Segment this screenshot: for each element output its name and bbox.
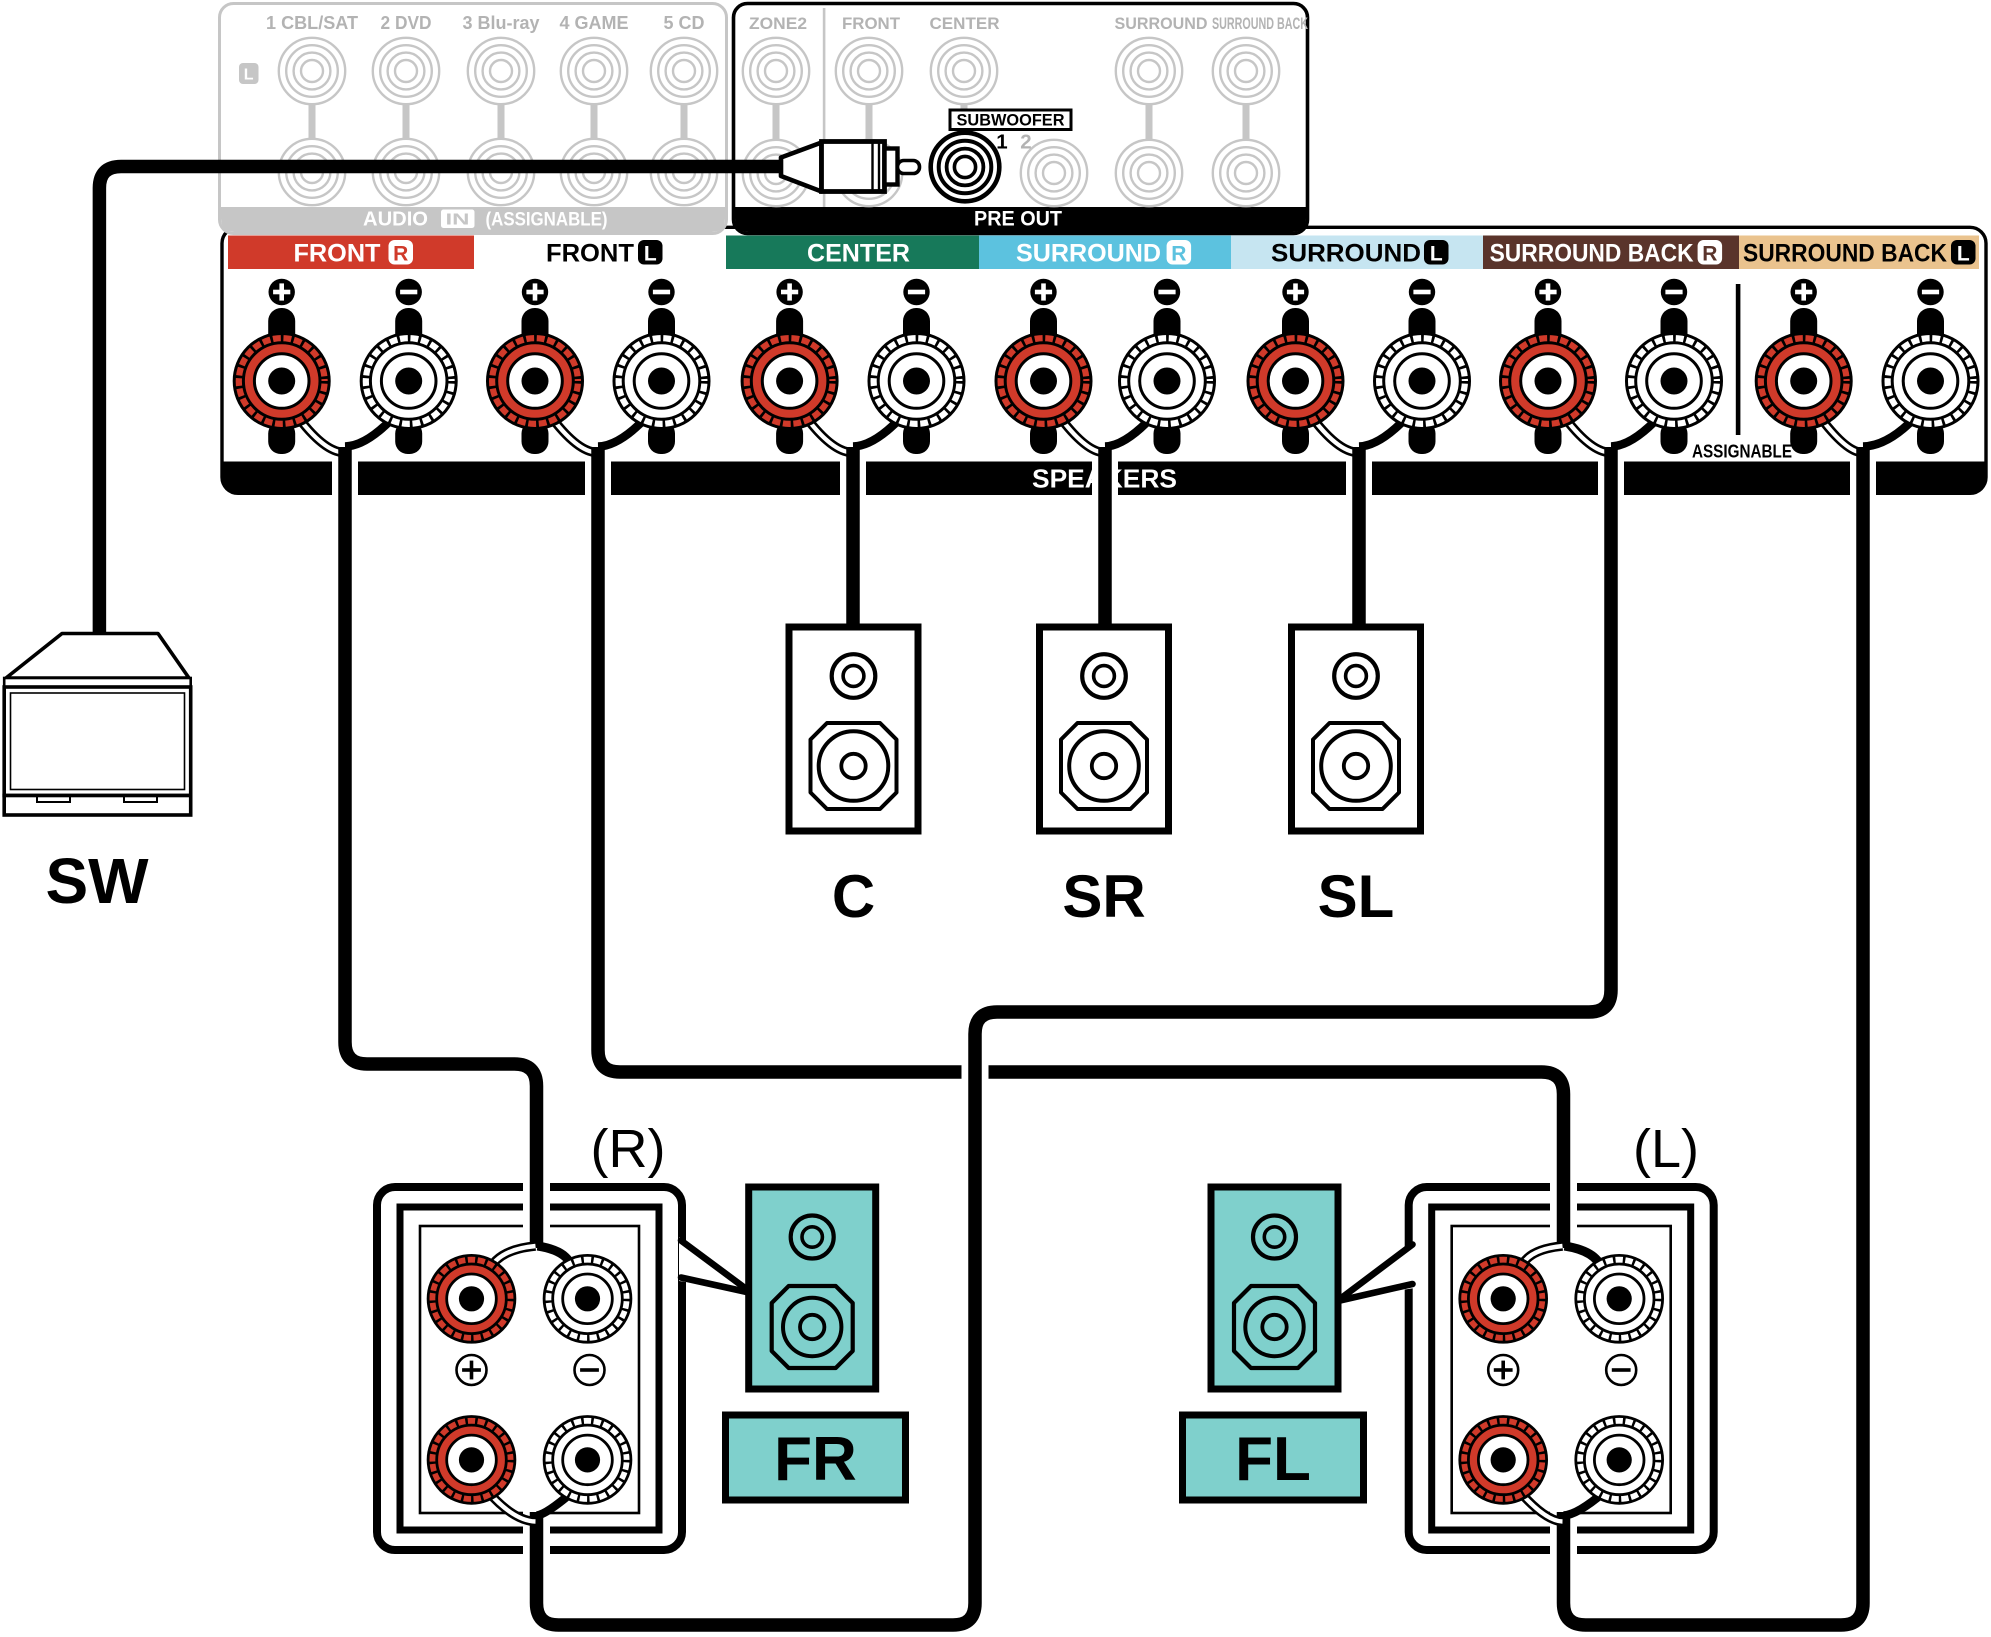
svg-text:CENTER: CENTER (807, 240, 910, 268)
wire strands SURROUND BACK R to speaker cable (1562, 414, 1660, 453)
svg-text:1 CBL/SAT: 1 CBL/SAT (266, 13, 358, 33)
pre-out jack SURROUND (bottom row) (1116, 140, 1182, 206)
wire strands FRONT L to speaker cable (549, 414, 648, 453)
terminal pair SURROUND BACK R: stubs (1535, 308, 1688, 454)
terminal pair SURROUND L: stubs (1282, 308, 1436, 454)
pre-out jack SURROUND (top row) (1116, 38, 1182, 104)
svg-text:IN: IN (446, 212, 470, 229)
speaker panel (R) outer frame (377, 1187, 682, 1550)
frame gaps for wires (R) (523, 1181, 550, 1233)
jack SUBWOOFER 1 (pre out, highlighted) (931, 133, 1000, 202)
pre-out jack SURROUND BACK (top row) (1213, 38, 1279, 104)
binding post FRONT R + (red) (234, 334, 329, 429)
binding post SURROUND BACK R + (red) (1501, 334, 1596, 429)
jack stem 5 CD (681, 104, 688, 139)
svg-text:CENTER: CENTER (930, 14, 1000, 33)
RCA jack 5 CD R (bottom row) (651, 139, 717, 205)
wire strands (L) top pair (1519, 1246, 1603, 1278)
svg-text:SURROUND: SURROUND (1115, 14, 1208, 33)
wire strands (R) bottom pair (487, 1490, 573, 1522)
RCA jack 2 DVD L (top row) (373, 38, 439, 104)
svg-text:SW: SW (45, 845, 149, 917)
svg-text:(ASSIGNABLE): (ASSIGNABLE) (486, 210, 608, 231)
speaker label band SURROUND L (1231, 236, 1483, 270)
RCA plug body (822, 142, 885, 192)
binding post SURROUND R + (red) (996, 334, 1091, 429)
band gap for FRONT R wire (332, 459, 358, 496)
svg-text:R: R (393, 243, 408, 266)
wire strands FRONT R to speaker cable (296, 414, 395, 453)
speaker label band SURROUND BACK R (1483, 236, 1739, 270)
svg-text:5 CD: 5 CD (664, 13, 705, 33)
svg-text:SURROUND: SURROUND (1016, 240, 1161, 268)
SPEAKERS bottom band (222, 462, 1986, 494)
RCA jack 4 GAME L (top row) (561, 38, 627, 104)
jack stem CENTER (short) (961, 104, 968, 110)
polarity symbols (R) (457, 1355, 605, 1385)
callout wedge (L) (1339, 1241, 1415, 1301)
svg-text:3 Blu-ray: 3 Blu-ray (463, 13, 540, 33)
svg-text:SR: SR (1062, 863, 1145, 930)
svg-text:L: L (1957, 243, 1970, 266)
binding post FRONT L - (white) (614, 334, 709, 429)
binding post CENTER - (white) (869, 334, 964, 429)
svg-text:C: C (832, 863, 875, 930)
speaker FR (teal) (749, 1187, 876, 1389)
binding post (L) minus white bottom (1576, 1417, 1663, 1504)
svg-text:SUBWOOFER: SUBWOOFER (957, 111, 1065, 130)
label box FL (1183, 1415, 1364, 1500)
svg-text:4 GAME: 4 GAME (560, 13, 629, 33)
svg-text:2 DVD: 2 DVD (381, 13, 432, 33)
binding post SURROUND L + (red) (1248, 334, 1343, 429)
terminal pair FRONT L: stubs (522, 308, 676, 454)
wire strands SURROUND R to speaker cable (1058, 414, 1154, 453)
subwoofer SW cabinet (4, 634, 191, 816)
L channel badge (239, 63, 259, 84)
RCA plug collar (885, 149, 898, 185)
svg-text:1: 1 (996, 131, 1007, 154)
polarity symbols SURROUND BACK L (1791, 279, 1944, 305)
speaker label band FRONT R (228, 236, 474, 270)
polarity symbols FRONT R (269, 279, 422, 305)
speaker panel (L) middle frame (1432, 1207, 1691, 1530)
speaker C (789, 627, 918, 831)
wire strands SURROUND L to speaker cable (1310, 414, 1409, 453)
svg-text:2: 2 (1020, 131, 1031, 154)
wire strands (R) top pair (488, 1246, 573, 1278)
zone2 divider line (823, 8, 826, 207)
jack stem FRONT (866, 104, 873, 139)
pre-out jack CENTER (top row) (931, 38, 997, 104)
svg-text:FL: FL (1235, 1425, 1311, 1494)
svg-text:R: R (1702, 243, 1717, 266)
jack stem 2 DVD (403, 104, 410, 139)
speaker label band SURROUND R (979, 236, 1231, 270)
svg-text:PRE OUT: PRE OUT (974, 208, 1062, 231)
speaker panel (R) inner frame (420, 1226, 639, 1513)
binding post SURROUND BACK R - (white) (1627, 334, 1722, 429)
speaker label band FRONT L (546, 240, 663, 268)
polarity symbols FRONT L (522, 279, 675, 305)
pre-out jack ZONE2 (top row) (743, 38, 809, 104)
terminal pair CENTER: stubs (776, 308, 930, 454)
wire hop gap (surround back R wire crossing front L wire) (962, 1058, 989, 1086)
speaker panel (R) middle frame (400, 1207, 659, 1530)
panel SPEAKERS terminal strip (222, 227, 1986, 493)
svg-text:FR: FR (774, 1425, 857, 1494)
band gap for CENTER wire (840, 459, 866, 496)
binding post (R) minus white top (544, 1255, 631, 1342)
band gap for SURROUND BACK R wire (1598, 459, 1624, 496)
svg-text:L: L (1430, 243, 1443, 266)
svg-text:(L): (L) (1633, 1119, 1699, 1179)
terminal pair SURROUND BACK L: stubs (1790, 308, 1944, 454)
SUBWOOFER label box (950, 110, 1071, 130)
polarity symbols SURROUND L (1282, 279, 1435, 305)
RCA jack 3 Blu-ray R (bottom row) (468, 139, 534, 205)
wire strands SURROUND BACK L to speaker cable (1818, 414, 1917, 453)
terminal pair FRONT R: stubs (268, 308, 422, 454)
pre-out jack FRONT (bottom row) (836, 140, 902, 206)
binding post (L) plus red bottom (1460, 1417, 1547, 1504)
assignable divider line (1736, 284, 1741, 435)
svg-text:SL: SL (1318, 863, 1395, 930)
svg-text:SURROUND BACK: SURROUND BACK (1212, 14, 1308, 33)
jack stem 3 Blu-ray (498, 104, 505, 139)
panel PRE OUT (734, 4, 1308, 234)
svg-text:SURROUND BACK: SURROUND BACK (1743, 240, 1947, 268)
svg-text:SURROUND BACK: SURROUND BACK (1490, 240, 1694, 268)
RCA plug strain relief (781, 143, 822, 192)
binding post (R) plus red bottom (428, 1417, 515, 1504)
band gap for SURROUND L wire (1346, 459, 1372, 496)
callout wedge (R) (679, 1237, 750, 1293)
terminal pair SURROUND R: stubs (1030, 308, 1181, 454)
speaker SL (1292, 627, 1421, 831)
RCA jack 2 DVD R (bottom row) (373, 139, 439, 205)
band gap for SURROUND R wire (1092, 459, 1118, 496)
svg-text:FRONT: FRONT (546, 240, 634, 268)
PRE OUT bottom band (735, 207, 1306, 232)
speaker label band SURROUND BACK L (1739, 236, 1979, 270)
binding post SURROUND BACK L + (red) (1756, 334, 1851, 429)
polarity symbols CENTER (776, 279, 929, 305)
wire SURROUND BACK L to speaker FL bottom pair (1564, 447, 1864, 1625)
speaker FL (teal) (1211, 1187, 1338, 1389)
RCA jack 1 CBL/SAT R (bottom row) (279, 139, 345, 205)
wire subwoofer RCA cable (SW to PRE OUT SUBWOOFER 1) (99, 167, 783, 635)
jack stem 4 GAME (591, 104, 598, 139)
binding post SURROUND L - (white) (1375, 334, 1470, 429)
speaker panel (L) inner frame (1452, 1226, 1671, 1513)
jack stem SURROUND (1146, 104, 1153, 139)
svg-text:ZONE2: ZONE2 (749, 14, 807, 33)
svg-text:L: L (244, 67, 254, 84)
svg-text:ASSIGNABLE: ASSIGNABLE (1692, 441, 1792, 462)
wire SURROUND BACK R to speaker FR bottom pair (537, 447, 1612, 1625)
frame gaps for wires (L) (1550, 1181, 1577, 1233)
band gap for SURROUND BACK L wire (1850, 459, 1876, 496)
binding post (L) plus red top (1460, 1255, 1547, 1342)
RCA plug body ridges (871, 143, 873, 190)
RCA jack 4 GAME R (bottom row) (561, 139, 627, 205)
RCA jack 3 Blu-ray L (top row) (468, 38, 534, 104)
binding post (R) minus white bottom (544, 1417, 631, 1504)
binding post (L) minus white top (1576, 1255, 1663, 1342)
svg-text:SURROUND: SURROUND (1271, 240, 1421, 268)
RCA jack 1 CBL/SAT L (top row) (279, 38, 345, 104)
pre-out jack SUBWOOFER 2 (bottom row) (1021, 140, 1087, 206)
jack stem SURROUND BACK (1243, 104, 1250, 139)
binding post CENTER + (red) (742, 334, 837, 429)
binding post SURROUND R - (white) (1120, 334, 1215, 429)
svg-text:(R): (R) (591, 1119, 666, 1179)
svg-text:R: R (1171, 243, 1186, 266)
jack stem ZONE2 (773, 104, 780, 139)
pre-out jack FRONT (top row) (836, 38, 902, 104)
speaker label band CENTER (726, 236, 979, 270)
label box FR (726, 1415, 906, 1500)
svg-text:AUDIO: AUDIO (363, 209, 428, 231)
wire strands (L) bottom pair (1518, 1490, 1604, 1522)
pre-out jack SURROUND BACK (bottom row) (1213, 140, 1279, 206)
svg-text:FRONT: FRONT (842, 14, 901, 33)
pre-out jack ZONE2 (bottom row) (743, 140, 809, 206)
wire FRONT R to speaker FR top pair (345, 447, 537, 1248)
band gap for FRONT L wire (585, 459, 611, 496)
polarity symbols SURROUND BACK R (1535, 279, 1687, 305)
RCA jack 5 CD L (top row) (651, 38, 717, 104)
binding post (R) plus red top (428, 1255, 515, 1342)
jack stem 1 CBL/SAT (309, 104, 316, 139)
speaker SR (1040, 627, 1169, 831)
wire FRONT L to speaker FL top pair (598, 447, 1564, 1248)
RCA plug center pin (898, 161, 920, 174)
panel AUDIO IN (assignable, grayed rear inputs) (220, 4, 727, 234)
binding post SURROUND BACK L - (white) (1883, 334, 1978, 429)
svg-text:FRONT: FRONT (294, 240, 381, 268)
wire CENTER to speaker C (846, 447, 860, 634)
wire SURROUND R to speaker SR (1098, 447, 1112, 634)
wire strands CENTER to speaker cable (804, 414, 903, 453)
polarity symbols (L) (1488, 1355, 1636, 1385)
speaker panel (L) outer frame (1409, 1187, 1714, 1550)
wire SURROUND L to speaker SL (1352, 447, 1366, 634)
binding post FRONT R - (white) (361, 334, 456, 429)
polarity symbols SURROUND R (1030, 279, 1180, 305)
binding post FRONT L + (red) (488, 334, 583, 429)
svg-text:L: L (644, 243, 657, 266)
